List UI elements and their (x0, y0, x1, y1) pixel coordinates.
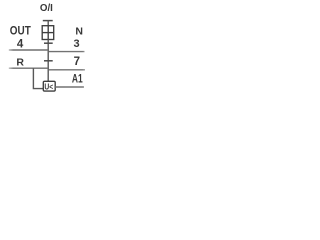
wire 3 row1 right (49, 51, 85, 53)
svg-text:N: N (75, 26, 83, 38)
svg-text:R: R (16, 56, 24, 68)
svg-text:U<: U< (44, 81, 53, 91)
svg-text:7: 7 (74, 56, 80, 68)
wire A1 (55, 86, 84, 88)
terminal tick top (43, 20, 53, 22)
svg-text:A1: A1 (72, 72, 83, 86)
wire R row2 left (9, 67, 48, 69)
contact block quad box (42, 26, 54, 40)
wire 7 row2 right (49, 69, 85, 71)
terminal tick middle (44, 42, 53, 44)
wire 4 row1 left (9, 49, 48, 51)
wire vertical top (47, 21, 49, 26)
svg-text:OUT: OUT (10, 25, 31, 37)
wire vertical below box (47, 40, 49, 82)
undervoltage release U< (43, 81, 55, 91)
terminal tick lower (44, 60, 53, 62)
svg-text:O/I: O/I (40, 2, 53, 14)
svg-text:4: 4 (17, 38, 24, 50)
svg-text:3: 3 (74, 38, 80, 50)
wire branch from R row to U< (33, 68, 43, 88)
